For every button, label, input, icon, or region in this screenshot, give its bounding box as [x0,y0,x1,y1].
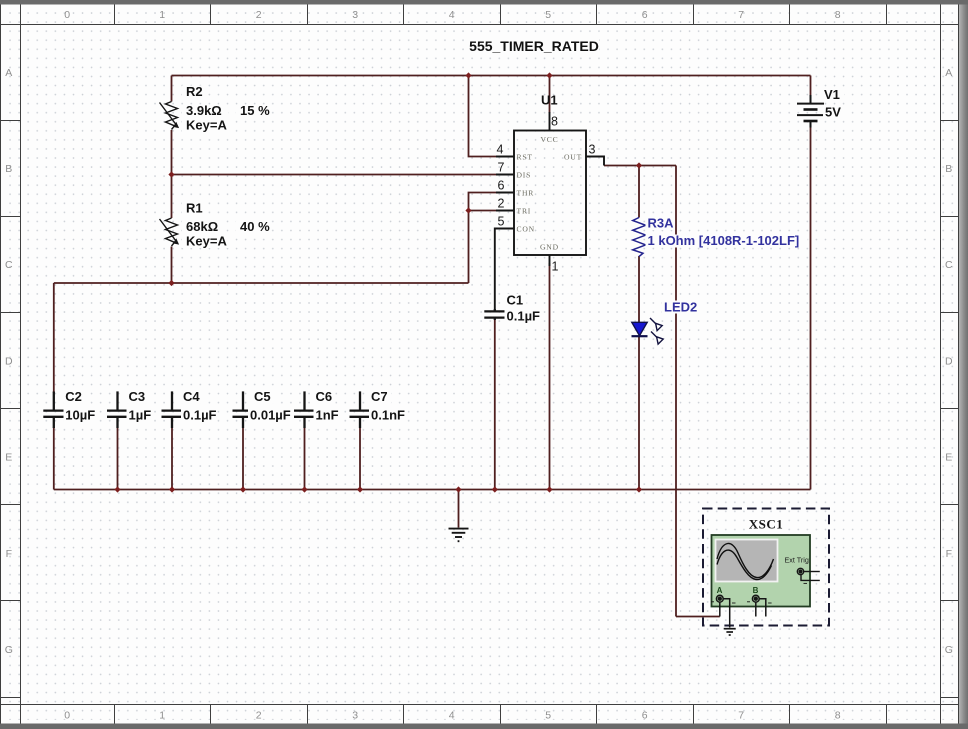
junction bus GND pin [546,486,552,492]
wire OUT node horizontal [604,165,676,167]
wire V1 top [810,76,812,97]
resistor R2 (potentiometer body) [160,102,178,130]
svg-text:C6: C6 [316,389,333,404]
capacitor C4 [162,391,183,428]
svg-text:1: 1 [159,710,165,722]
resistor R3A (blue zigzag) [633,218,646,257]
wire C5 bottom [242,427,244,490]
svg-text:G: G [5,644,13,656]
svg-text:B: B [753,586,759,595]
svg-text:Key=A: Key=A [186,118,227,133]
svg-text:0.1µF: 0.1µF [507,309,541,324]
junction OUT-LED node [636,162,642,168]
pin names inside U1 [517,135,583,251]
svg-text:5: 5 [545,710,551,722]
instrument body [712,535,811,607]
svg-text:6: 6 [642,9,648,21]
wire R1 top [171,175,173,219]
wire TRI branch [469,210,498,212]
svg-text:7: 7 [738,710,744,722]
wire R3A top [638,166,640,218]
svg-text:1: 1 [159,9,165,21]
setting 40 % of R1 [236,219,271,234]
svg-text:A: A [5,67,12,79]
junction TRI node [465,207,471,213]
junction rail-RST [465,72,471,78]
svg-text:C5: C5 [254,389,271,404]
diode LED2 symbol [632,318,664,344]
svg-text:CON: CON [517,224,535,233]
title 555_TIMER_RATED [467,38,599,54]
wire C4 bottom [171,427,173,490]
svg-text:E: E [5,452,12,464]
svg-text:2: 2 [256,710,262,722]
wire scope drop [675,166,677,617]
junction bus C3 [114,486,120,492]
wire C7 bottom [359,427,361,490]
svg-text:VCC: VCC [541,135,559,144]
svg-text:68kΩ: 68kΩ [186,219,218,234]
label R3A [646,216,675,231]
label Key=A of R2 [182,118,229,133]
svg-text:C3: C3 [129,389,146,404]
svg-text:0.01µF: 0.01µF [250,408,291,423]
terminal Ext Trig [797,568,820,583]
wire C3 bottom [117,427,119,490]
svg-text:555_TIMER_RATED: 555_TIMER_RATED [469,38,599,54]
label C4 [181,389,203,404]
label R1 [182,201,205,216]
svg-text:7: 7 [498,160,505,174]
junction bus C5 [240,486,246,492]
junction bus LED [636,486,642,492]
svg-text:5: 5 [498,214,505,228]
oscilloscope XSC1 [703,509,829,636]
wire ground stub [458,490,460,528]
label C6 [314,389,336,404]
wire scope horizontal to A input [676,616,720,618]
svg-text:B: B [945,163,952,175]
svg-text:F: F [6,548,12,560]
pin stub RST [496,156,514,158]
wire bottom THR/TRI horizontal [54,282,469,284]
svg-text:U1: U1 [541,93,558,108]
label C7 [369,389,391,404]
capacitor C1 plates [484,309,505,320]
svg-text:A: A [717,586,723,595]
svg-text:8: 8 [551,115,558,129]
svg-text:10µF: 10µF [65,408,95,423]
svg-text:0.1nF: 0.1nF [371,408,405,423]
pin stub CON + wire to C1 [495,229,514,310]
svg-text:0.1µF: 0.1µF [183,408,217,423]
svg-text:XSC1: XSC1 [749,517,784,532]
svg-text:5V: 5V [825,105,841,120]
junction R2-DIS node [168,171,174,177]
svg-text:C: C [945,259,953,271]
svg-text:THR: THR [517,188,535,197]
wire R1 bottom to THR/TRI rail [171,247,173,284]
wire VCC pin drop [549,76,551,114]
wire C2 bottom to bus [53,427,55,490]
label V1 [822,87,844,102]
svg-text:R1: R1 [186,201,203,216]
svg-text:Key=A: Key=A [186,234,227,249]
label R2 [182,84,205,99]
setting 15 % of R2 [236,103,271,118]
junction bus ground [455,486,461,492]
capacitor C5 [233,391,254,428]
svg-text:5: 5 [545,9,551,21]
svg-text:8: 8 [835,9,841,21]
label C5 [252,389,274,404]
svg-text:E: E [945,452,952,464]
svg-text:R2: R2 [186,84,203,99]
value 5V of V1 [823,105,845,120]
capacitor C7 [350,391,371,428]
svg-text:GND: GND [540,242,559,251]
svg-text:40 %: 40 % [240,219,270,234]
svg-text:C: C [5,259,13,271]
svg-text:OUT: OUT [564,152,582,161]
sine trace 2 [717,550,772,579]
svg-text:C1: C1 [507,293,524,308]
svg-text:1µF: 1µF [129,408,152,423]
capacitor C6 [294,391,315,428]
label Key=A of R1 [182,234,229,249]
ground at scope A- [724,629,736,635]
junction bus C4 [169,486,175,492]
junction bus C1 [492,486,498,492]
junction bus C6 [301,486,307,492]
svg-text:3: 3 [352,710,358,722]
svg-text:1nF: 1nF [316,408,339,423]
value 1nF of C6 [314,408,340,423]
svg-text:RST: RST [517,152,533,161]
svg-text:8: 8 [835,710,841,722]
svg-text:2: 2 [256,9,262,21]
value 3.9kΩ of R2 [182,103,228,118]
svg-text:D: D [945,355,953,367]
svg-text:1: 1 [552,259,559,273]
svg-text:DIS: DIS [517,170,532,179]
screen [716,540,778,582]
value 0.1nF of C7 [369,408,405,423]
svg-text:TRI: TRI [517,206,532,215]
pin stub THR [496,192,514,194]
value 1µF of C3 [127,408,154,423]
svg-text:D: D [5,355,13,367]
pin stub GND (1) [549,255,551,266]
value 1 kOhm [4108R-1-102LF] of R3A [646,233,808,248]
label C1 [505,293,527,308]
svg-text:C7: C7 [371,389,388,404]
svg-text:R3A: R3A [648,216,675,231]
value 0.1µF of C4 [181,408,217,423]
pin stub VCC (8) [549,112,551,131]
wire ground bus [54,489,811,491]
pin stub OUT (3) [586,157,604,166]
label U1 [541,93,558,108]
wire C1 bottom to bus [494,320,496,490]
label C2 [64,389,86,404]
wire left branch down to C2 [53,283,55,393]
label C3 [127,389,149,404]
svg-text:4: 4 [449,710,455,722]
wire C6 bottom [304,427,306,490]
svg-text:A: A [945,67,952,79]
wire GND pin to bus [549,263,551,490]
svg-text:B: B [5,163,12,175]
svg-text:3: 3 [352,9,358,21]
svg-text:0: 0 [64,9,70,21]
svg-text:4: 4 [497,142,504,156]
terminal B [747,586,772,617]
arrowhead R2 [173,122,179,128]
svg-text:G: G [945,644,953,656]
battery V1 symbol [797,95,824,128]
value 0.01µF of C5 [248,408,294,423]
svg-text:6: 6 [498,178,505,192]
terminal A [711,586,736,628]
svg-text:0: 0 [64,710,70,722]
sine trace 1 [717,543,774,577]
ground symbol [449,529,469,542]
svg-text:7: 7 [738,9,744,21]
capacitor C3 [107,391,128,428]
svg-text:4: 4 [449,9,455,21]
wire R2 bottom to DIS node [171,130,173,175]
pin numbers [497,115,596,274]
svg-text:3.9kΩ: 3.9kΩ [186,103,222,118]
capacitor C2 [43,392,64,429]
svg-text:1 kOhm [4108R-1-102LF]: 1 kOhm [4108R-1-102LF] [648,233,800,248]
value 10µF of C2 [64,408,97,423]
label XSC1 [745,517,787,532]
svg-text:2: 2 [498,196,505,210]
svg-text:C2: C2 [65,389,82,404]
IC U1 555 body [514,131,586,256]
label LED2 [662,300,700,315]
value 0.1µF of C1 [505,309,543,324]
pin stub DIS [496,174,514,176]
wire THR branch [469,193,498,284]
resistor R1 (potentiometer body) [160,218,178,246]
junction rail-VCC [546,72,552,78]
pot arrowheads [173,122,179,245]
value 68kΩ of R1 [182,219,224,234]
svg-text:15 %: 15 % [240,103,270,118]
wire DIS horizontal [172,174,498,176]
wire R2 top from rail [171,76,173,102]
arrowhead R1 [173,238,179,244]
junction R1 bottom node [168,280,174,286]
blue labels [646,216,808,315]
svg-text:3: 3 [589,142,596,156]
wire LED2 to bus [638,337,640,490]
wire top VCC rail [172,75,811,77]
pin stub TRI [496,210,514,212]
svg-text:Ext Trig: Ext Trig [785,556,809,565]
svg-text:LED2: LED2 [664,300,697,315]
op: black component graphics [43,95,824,541]
svg-text:6: 6 [642,710,648,722]
wire R3A to LED2 [638,256,640,322]
wire RST drop from rail [469,76,498,157]
svg-text:V1: V1 [824,87,840,102]
svg-text:C4: C4 [183,389,200,404]
wire V1 bottom to bus [810,127,812,490]
junction bus C7 [357,486,363,492]
svg-text:F: F [946,548,952,560]
dashed instrument boundary [703,509,829,626]
